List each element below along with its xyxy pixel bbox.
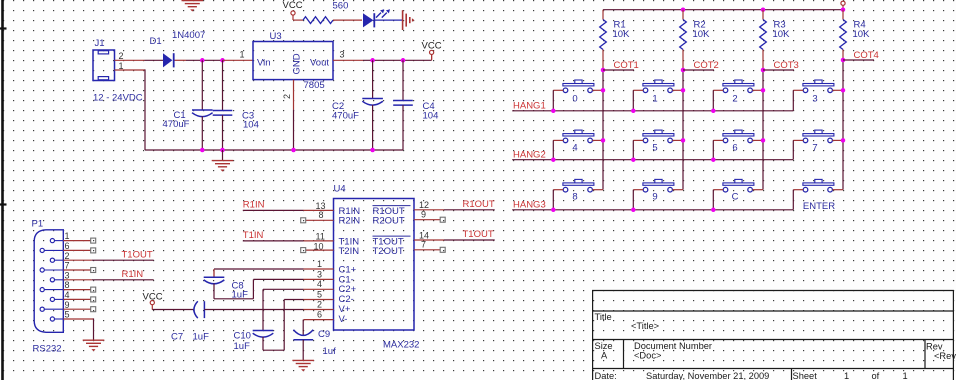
R1 top stub — [602, 10, 604, 20]
resistor R3 — [760, 20, 767, 50]
wire pin5 elbow — [283, 300, 285, 351]
svg-text:C10: C10 — [234, 331, 251, 342]
svg-text:Vin: Vin — [257, 57, 271, 68]
pushbutton 2 — [723, 80, 754, 93]
P1 pin 2 stub — [63, 259, 91, 261]
svg-text:1: 1 — [317, 259, 322, 269]
U4 pin 1 stub — [304, 268, 334, 270]
svg-text:V-: V- — [339, 314, 348, 325]
svg-text:1: 1 — [65, 231, 70, 241]
wire button 0 drop — [552, 90, 554, 111]
svg-text:ENTER: ENTER — [803, 201, 835, 212]
svg-text:104: 104 — [243, 120, 259, 131]
wire to D1 anode — [145, 59, 164, 61]
svg-text:HANG1: HANG1 — [513, 101, 546, 112]
svg-text:6: 6 — [732, 142, 737, 153]
svg-text:6: 6 — [65, 241, 70, 251]
svg-text:RS232: RS232 — [33, 344, 62, 355]
ground (cut off at top) — [182, 1, 204, 12]
svg-text:U3: U3 — [270, 31, 282, 42]
wire button C drop — [712, 190, 714, 210]
capacitor C10 — [253, 331, 274, 338]
capacitor C2 wires — [372, 60, 374, 98]
P1 pin 7 wire — [63, 269, 90, 271]
button 1 right stub — [672, 89, 683, 91]
wire matrix VCC rail — [603, 9, 843, 11]
P1 pin 9 wire — [63, 308, 90, 310]
wire C8 to pin3 elbow — [214, 298, 253, 300]
svg-text:1uF: 1uF — [234, 341, 251, 352]
power VCC symbol (supply out) — [430, 50, 434, 59]
J1 bottom contact — [98, 77, 108, 80]
svg-text:470uF: 470uF — [332, 110, 359, 121]
pushbutton 8 — [563, 179, 594, 192]
svg-text:1uf: 1uf — [323, 346, 337, 357]
regulator U3 body — [253, 42, 333, 80]
P1 pin 4 wire — [63, 298, 90, 300]
svg-text:VCC: VCC — [422, 41, 442, 52]
junction row1 col0 — [551, 109, 556, 114]
U3 pin 2 stub — [293, 80, 295, 110]
P1 pin 5 — [50, 317, 63, 321]
capacitor C3 — [213, 111, 233, 116]
svg-text:10K: 10K — [773, 29, 791, 40]
wire COT2 column — [682, 70, 684, 190]
U4 pin 14 stub — [414, 239, 444, 241]
P1 pin 1 wire — [63, 240, 90, 242]
svg-text:Rev: Rev — [926, 342, 943, 352]
svg-text:5: 5 — [65, 310, 70, 320]
P1 pin 6 — [40, 248, 63, 252]
wire button 9 drop — [632, 190, 634, 210]
button 9 right stub — [672, 189, 683, 191]
svg-text:Vout: Vout — [310, 57, 329, 68]
svg-text:R1IN: R1IN — [243, 199, 265, 210]
svg-text:8: 8 — [65, 280, 70, 290]
wire ground rail — [145, 149, 403, 151]
wire pin5 — [284, 299, 303, 301]
connector J1 body — [93, 50, 115, 81]
P1 pin 6 wire — [63, 249, 90, 251]
svg-text:C7: C7 — [171, 332, 183, 343]
svg-text:HANG2: HANG2 — [513, 150, 546, 161]
junction COT4 stub — [841, 58, 846, 63]
junction row3 col2 — [711, 208, 716, 213]
wire button 4 drop — [552, 140, 554, 159]
capacitor C8 — [204, 277, 225, 284]
unconnected square pin 8 — [91, 287, 96, 292]
P1 pin 3 — [50, 278, 63, 282]
svg-text:9: 9 — [421, 209, 426, 219]
wire button 8 drop — [552, 190, 554, 210]
power VCC symbol (matrix) — [841, 1, 845, 10]
unconnected square pin 7 — [91, 268, 96, 273]
button 0 right stub — [592, 89, 603, 91]
button 4 right stub — [592, 139, 603, 141]
wire gnd stem — [222, 150, 224, 161]
svg-text:3: 3 — [317, 269, 322, 279]
svg-text:3: 3 — [65, 270, 70, 280]
svg-text:T1IN: T1IN — [243, 230, 264, 241]
svg-text:4: 4 — [572, 142, 577, 153]
P1 pin 3 stub — [63, 279, 91, 281]
svg-text:Date:: Date: — [595, 371, 617, 380]
svg-text:Document Number: Document Number — [634, 341, 712, 351]
svg-text:Size: Size — [595, 341, 613, 351]
svg-text:3: 3 — [812, 94, 817, 105]
button C right stub — [752, 189, 763, 191]
pushbutton ENTER — [803, 179, 834, 192]
LED D2 — [363, 9, 390, 27]
svg-text:T2IN: T2IN — [339, 246, 360, 257]
wire R1IN net — [243, 209, 304, 211]
unconnected square pin 4 — [91, 297, 96, 302]
U4 pin 2 stub — [304, 309, 334, 311]
svg-text:R1OUT: R1OUT — [463, 199, 495, 210]
svg-text:5: 5 — [317, 289, 322, 299]
R4 top stub — [842, 10, 844, 20]
svg-text:3: 3 — [340, 50, 345, 60]
button 8 right stub — [592, 189, 603, 191]
ground (P1) — [83, 340, 105, 351]
unconnected square pin 7 — [440, 247, 445, 252]
P1 pin 8 — [40, 288, 63, 292]
svg-text:A: A — [601, 351, 608, 361]
svg-text:10K: 10K — [693, 29, 711, 40]
wire pin4 to C10 — [263, 288, 304, 290]
button 7 right stub — [832, 139, 843, 141]
wire T1IN net — [243, 240, 304, 242]
svg-text:R1IN: R1IN — [122, 269, 144, 280]
capacitor C7 — [194, 301, 205, 318]
wire COT3 label stub — [763, 69, 794, 71]
capacitor C9 — [293, 330, 313, 340]
wire VCC to C7 — [152, 309, 194, 311]
button C left stub — [713, 189, 723, 191]
pushbutton 0 — [563, 80, 594, 93]
svg-text:1: 1 — [119, 61, 124, 71]
junction row3 col1 — [631, 208, 636, 213]
junction row2 col0 — [551, 157, 556, 162]
svg-text:12 - 24VDC: 12 - 24VDC — [93, 93, 143, 104]
wire T1OUT net — [444, 239, 495, 241]
pushbutton 9 — [643, 179, 674, 192]
wire HANG3 row — [512, 209, 793, 211]
junction C1 top — [200, 58, 205, 63]
svg-text:COT2: COT2 — [694, 60, 719, 71]
svg-text:T2OUT: T2OUT — [373, 246, 404, 257]
svg-text:4: 4 — [65, 290, 70, 300]
wire C10 top drop — [262, 289, 264, 330]
junction col4 row2 — [841, 138, 846, 143]
svg-text:COT1: COT1 — [614, 60, 639, 71]
svg-text:2: 2 — [65, 251, 70, 261]
wire R5 to LED — [333, 19, 362, 21]
D1 cathode stub — [175, 59, 187, 61]
svg-text:VCC: VCC — [283, 0, 303, 11]
svg-text:COT4: COT4 — [854, 50, 879, 61]
svg-text:7: 7 — [812, 142, 817, 153]
resistor 560 — [303, 17, 333, 24]
wire C10 bottom — [262, 337, 264, 350]
U4 pin 9 stub — [414, 219, 440, 221]
J1 pin 1 stub — [115, 69, 146, 71]
svg-text:D1: D1 — [150, 36, 162, 47]
svg-text:1: 1 — [240, 50, 245, 60]
wire button 7 drop — [792, 140, 794, 159]
wire C10 to pin5 elbow — [263, 349, 284, 351]
wire U3 GND down — [293, 110, 295, 150]
wire COT2 label stub — [683, 69, 714, 71]
svg-text:C9: C9 — [318, 329, 330, 340]
svg-text:<Doc>: <Doc> — [634, 351, 661, 361]
junction row2 col2 — [711, 157, 716, 162]
svg-text:MAX232: MAX232 — [383, 340, 419, 351]
wire COT1 label stub — [603, 69, 634, 71]
junction gnd stem — [220, 148, 225, 153]
R2 top stub — [682, 10, 684, 20]
U3 pin 1 stub — [223, 59, 254, 61]
junction COT2 stub — [681, 68, 686, 73]
unconnected square pin 9 — [91, 307, 96, 312]
svg-text:R2IN: R2IN — [339, 216, 361, 227]
wire button 6 drop — [712, 140, 714, 159]
junction COT1 stub — [601, 68, 606, 73]
svg-text:<Rev: <Rev — [934, 351, 956, 361]
U4 pin 12 stub — [414, 209, 444, 211]
svg-text:560: 560 — [333, 1, 349, 12]
capacitor C4 — [393, 101, 413, 106]
capacitor C2 — [362, 99, 383, 106]
wire D1 to U3 — [186, 59, 223, 61]
junction R3 top — [761, 7, 766, 12]
wire C2 bottom — [372, 105, 374, 150]
junction C4 top — [401, 58, 406, 63]
ground (supply) — [212, 161, 234, 172]
svg-text:of: of — [872, 371, 880, 380]
wire COT3 column — [762, 70, 764, 190]
svg-text:104: 104 — [423, 110, 439, 121]
button 6 left stub — [713, 139, 723, 141]
wire R1IN — [92, 279, 154, 281]
junction col1 row1 — [601, 88, 606, 93]
wire T1OUT — [92, 259, 154, 261]
capacitor C1 — [192, 110, 213, 117]
junction col2 row1 — [681, 88, 686, 93]
resistor R1 — [600, 20, 607, 50]
wire HANG1 row — [512, 110, 793, 112]
wire C1 bottom — [201, 116, 203, 150]
wire HANG2 row — [512, 159, 793, 161]
svg-text:1uF: 1uF — [193, 332, 210, 343]
U4 pin 10 stub — [306, 249, 334, 251]
junction C3 top — [220, 58, 225, 63]
button 9 left stub — [633, 189, 643, 191]
power VCC symbol (LED circuit) — [291, 11, 295, 20]
R3 top stub — [762, 10, 764, 20]
unconnected square pin 1 — [91, 238, 96, 243]
power VCC symbol (MAX232) — [150, 301, 154, 310]
junction col4 row1 — [841, 88, 846, 93]
svg-text:7805: 7805 — [304, 80, 325, 91]
wire button 3 drop — [792, 90, 794, 111]
junction C2 bottom — [370, 148, 375, 153]
page border left edge — [0, 0, 7, 380]
svg-text:1: 1 — [903, 371, 908, 380]
unconnected square pin 9 — [440, 217, 445, 222]
diode D1 — [163, 53, 174, 67]
wire pin3 elbow — [252, 279, 254, 298]
pushbutton C — [723, 179, 754, 192]
wire U3 out to VCC — [363, 59, 432, 61]
U4 T1OUT overline — [373, 235, 411, 237]
wire LED cathode — [374, 19, 402, 21]
R3 bottom stub — [762, 50, 764, 71]
svg-text:HANG3: HANG3 — [513, 200, 546, 211]
wire button ENTER drop — [792, 190, 794, 210]
U4 pin 5 stub — [304, 299, 334, 301]
wire button 1 drop — [632, 90, 634, 111]
svg-text:2: 2 — [732, 94, 737, 105]
junction row1 col2 — [711, 109, 716, 114]
P1 pin 5 stub — [63, 318, 93, 320]
svg-text:9: 9 — [65, 300, 70, 310]
pushbutton 1 — [643, 80, 674, 93]
title block frame — [593, 291, 954, 380]
wire J1 pin1 down — [144, 69, 146, 150]
wire C4 bottom — [402, 105, 404, 150]
button 2 left stub — [713, 89, 723, 91]
button 1 left stub — [633, 89, 643, 91]
unconnected square pin 10 — [301, 248, 306, 253]
wire pin5 to ground — [93, 318, 95, 340]
capacitor C4 wires — [402, 60, 404, 100]
svg-text:470uF: 470uF — [163, 119, 190, 130]
svg-text:2: 2 — [282, 94, 292, 99]
button ENTER left stub — [793, 189, 803, 191]
svg-text:6: 6 — [317, 310, 322, 320]
resistor R2 — [680, 20, 687, 50]
junction U3 gnd — [291, 148, 296, 153]
wire button 5 drop — [632, 140, 634, 159]
button 6 right stub — [752, 139, 763, 141]
P1 pin 1 — [50, 239, 63, 243]
pushbutton 3 — [803, 80, 834, 93]
svg-text:8: 8 — [319, 210, 324, 220]
U4 R1OUT overline — [373, 205, 411, 207]
svg-text:R2OUT: R2OUT — [373, 216, 405, 227]
junction col3 row2 — [761, 138, 766, 143]
ground (C9) — [292, 360, 314, 371]
U4 pin 8 stub — [306, 219, 334, 221]
U4 pin 11 stub — [304, 240, 334, 242]
svg-text:<Title>: <Title> — [631, 321, 659, 331]
svg-text:7: 7 — [421, 240, 426, 250]
P1 pin 8 wire — [63, 289, 90, 291]
wire pin1 to C8 — [214, 268, 304, 270]
ground (rotated) LED circuit — [403, 10, 415, 30]
connector P1 DB9 body — [34, 230, 63, 332]
button 5 left stub — [633, 139, 643, 141]
wire C8 bottom — [213, 284, 215, 299]
svg-text:T1OUT: T1OUT — [122, 250, 153, 261]
svg-text:4: 4 — [317, 279, 322, 289]
svg-text:7: 7 — [65, 261, 70, 271]
svg-text:11: 11 — [316, 232, 325, 242]
svg-text:C: C — [732, 192, 739, 203]
svg-text:P1: P1 — [32, 219, 44, 230]
svg-text:T1OUT: T1OUT — [463, 229, 494, 240]
junction C1 bottom — [200, 148, 205, 153]
resistor R4 — [840, 20, 847, 50]
svg-text:Title: Title — [595, 312, 612, 322]
button 0 left stub — [553, 89, 563, 91]
wire pin3 — [253, 278, 303, 280]
svg-text:2: 2 — [119, 51, 124, 61]
J1 pin 2 stub — [115, 59, 145, 61]
P1 pin 7 — [40, 268, 63, 272]
svg-text:10K: 10K — [853, 29, 871, 40]
wire VCC to R5 — [293, 19, 303, 21]
junction row3 col0 — [551, 208, 556, 213]
capacitor C3 wires — [222, 60, 224, 110]
wire C8 top stub — [213, 269, 215, 277]
svg-text:0: 0 — [572, 94, 577, 105]
junction col2 row2 — [681, 138, 686, 143]
junction C2 top — [370, 58, 375, 63]
pushbutton 5 — [643, 130, 674, 143]
unconnected square pin 8 — [301, 218, 306, 223]
U4 pin 3 stub — [304, 278, 334, 280]
pushbutton 6 — [723, 130, 754, 143]
capacitor C1 wires — [201, 60, 203, 110]
R2 bottom stub — [682, 50, 684, 71]
P1 pin 9 — [40, 307, 63, 311]
junction R4 top — [841, 7, 846, 12]
junction R2 top — [681, 7, 686, 12]
U4 pin 13 stub — [304, 209, 334, 211]
wire pin6 to C9 — [302, 320, 304, 336]
wire C7 to pin2 — [204, 309, 303, 311]
wire to VCC right — [431, 55, 433, 61]
svg-text:Sheet: Sheet — [793, 371, 818, 380]
P1 pin 4 — [50, 297, 63, 301]
button 4 left stub — [553, 139, 563, 141]
svg-text:J1: J1 — [95, 38, 105, 49]
wire R1OUT net — [444, 209, 495, 211]
button ENTER right stub — [832, 189, 843, 191]
U4 pin 4 stub — [304, 288, 334, 290]
button 3 right stub — [832, 89, 843, 91]
button 7 left stub — [793, 139, 803, 141]
wire COT4 label stub — [843, 59, 874, 61]
svg-text:1N4007: 1N4007 — [172, 30, 205, 41]
svg-text:2: 2 — [317, 299, 322, 309]
junction row2 col1 — [631, 157, 636, 162]
U3 pin 3 stub — [333, 59, 363, 61]
P1 pin 2 — [50, 258, 63, 262]
wire C3 bottom — [222, 115, 224, 150]
unconnected square pin 6 — [91, 248, 96, 253]
R4 bottom stub — [842, 50, 844, 61]
wire button 2 drop — [712, 90, 714, 111]
svg-text:10K: 10K — [613, 29, 631, 40]
pushbutton 4 — [563, 130, 594, 143]
svg-text:COT3: COT3 — [774, 60, 799, 71]
svg-text:1: 1 — [844, 371, 849, 380]
wire COT1 column — [602, 70, 604, 190]
pushbutton 7 — [803, 130, 834, 143]
